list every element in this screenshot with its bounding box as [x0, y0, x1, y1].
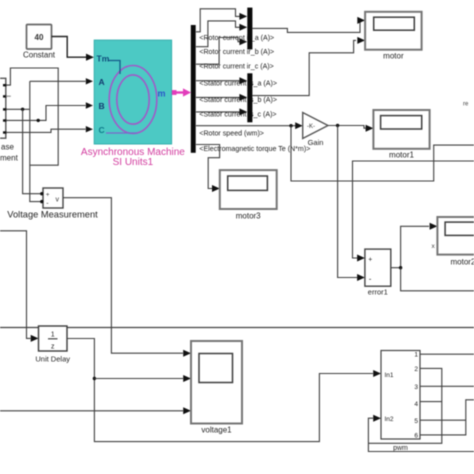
- svg-text:Voltage Measurement: Voltage Measurement: [7, 210, 98, 220]
- svg-text:3: 3: [414, 384, 418, 391]
- junction to voltage1 in2: [93, 377, 96, 380]
- svg-text:motor2: motor2: [451, 258, 474, 267]
- wire ir_c to mux in3: [196, 38, 240, 65]
- svg-text:<Rotor speed (wm)>: <Rotor speed (wm)>: [199, 130, 264, 138]
- error1 sum block: [365, 249, 391, 296]
- svg-text:+: +: [46, 192, 50, 199]
- wire phase b to machine B: [6, 106, 86, 121]
- vertical tap a to VM port2: [30, 81, 42, 201]
- svg-text:<Rotor current ir_a (A)>: <Rotor current ir_a (A)>: [199, 34, 274, 42]
- wire error1 out down off right edge: [401, 268, 474, 291]
- scope voltage1: [191, 341, 242, 435]
- svg-text:A: A: [99, 77, 105, 87]
- svg-text:-: -: [369, 275, 372, 284]
- svg-text:ment: ment: [0, 154, 19, 163]
- svg-text:m: m: [158, 89, 166, 99]
- svg-text:ase: ase: [1, 143, 14, 152]
- svg-text:<Rotor current ir_b (A)>: <Rotor current ir_b (A)>: [199, 48, 274, 56]
- wire constant to Tm: [52, 37, 88, 58]
- wire is_a to mux2: [196, 80, 240, 82]
- svg-text:re: re: [463, 102, 469, 108]
- constant block "40": [23, 25, 56, 60]
- svg-text:In1: In1: [385, 372, 394, 379]
- signal name labels: [199, 34, 310, 153]
- svg-text:5: 5: [414, 418, 418, 425]
- wire gain out to motor1: [328, 126, 366, 129]
- asynchronous machine block: [94, 40, 171, 144]
- wire is_c to mux2: [196, 111, 240, 113]
- m output arrow (magenta): [172, 90, 177, 95]
- wire ir_a to mux in1: [196, 9, 240, 32]
- svg-text:Tm: Tm: [97, 54, 110, 64]
- node tap to VM port1: [21, 108, 24, 111]
- wire rotor speed to gain: [196, 125, 297, 127]
- svg-text:motor3: motor3: [236, 212, 261, 221]
- mux rotor currents: [247, 8, 252, 50]
- wire from left edge to unit delay: [0, 231, 31, 339]
- wire unit delay out down along bottom to pwm In1: [67, 339, 373, 442]
- wire ir_b to mux in2: [196, 21, 240, 47]
- wire gain tap down to error1 minus: [338, 126, 357, 278]
- mux stator currents: [247, 73, 252, 122]
- svg-text:<Electromagnetic torque Te (N*: <Electromagnetic torque Te (N*m)>: [199, 145, 310, 153]
- three-phase measurement block (cut off at left edge): [0, 78, 19, 162]
- wire speed tap down right and off right edge: [291, 126, 474, 181]
- svg-text:voltage1: voltage1: [201, 426, 232, 435]
- svg-text:motor: motor: [383, 52, 404, 61]
- wire VM output to voltage1 in1: [63, 198, 183, 354]
- svg-text:6: 6: [414, 433, 418, 440]
- voltage measurement block: [7, 188, 98, 220]
- gain block: [303, 113, 328, 148]
- svg-text:Constant: Constant: [23, 51, 56, 60]
- pwm out1 wire: [420, 353, 474, 355]
- wire is_b to mux2: [196, 96, 240, 98]
- pwm out2 wire loop: [368, 368, 441, 443]
- svg-text:-K-: -K-: [307, 124, 315, 130]
- svg-text:B: B: [99, 101, 105, 111]
- wire phase c to machine C: [6, 129, 86, 132]
- pwm out6 wire: [420, 400, 474, 435]
- unit delay block: [35, 326, 70, 364]
- wire feedback from right edge to pwm In2: [368, 418, 474, 451]
- svg-text:In2: In2: [385, 416, 394, 423]
- svg-text:+: +: [368, 257, 372, 264]
- svg-text:40: 40: [35, 33, 44, 42]
- scope motor2 (cut off at right edge): [432, 217, 474, 267]
- scope motor3: [220, 170, 277, 220]
- wire phase a to machine A: [6, 81, 86, 109]
- scope motor: [365, 12, 422, 61]
- wire mux1 out to scope motor: [252, 20, 361, 32]
- svg-text:2: 2: [414, 366, 418, 373]
- svg-text:Unit Delay: Unit Delay: [35, 355, 70, 364]
- port stub: [6, 95, 11, 97]
- svg-text:v: v: [56, 197, 60, 204]
- wire mux2 out to scope motor in2: [252, 40, 356, 95]
- wire up-and-over from port 1: [6, 68, 58, 165]
- wire from left edge to voltage1 in3: [0, 410, 183, 412]
- wire speed ref from right edge to error1 plus: [353, 161, 474, 258]
- svg-text:error1: error1: [368, 288, 388, 297]
- scope motor1: [373, 110, 429, 160]
- svg-text:1: 1: [414, 352, 418, 359]
- svg-text:motor1: motor1: [389, 151, 414, 160]
- pwm out5 wire: [420, 419, 466, 421]
- svg-text:SI Units1: SI Units1: [113, 157, 154, 168]
- pwm subsystem block: [381, 351, 420, 453]
- bus selector: [191, 25, 196, 153]
- pwm out3 wire: [420, 385, 474, 387]
- wire error1 out up to motor2: [391, 226, 429, 267]
- svg-text:C: C: [99, 125, 105, 135]
- svg-text:z: z: [51, 344, 55, 351]
- svg-text:Gain: Gain: [308, 138, 324, 147]
- long main line across whole model: [0, 327, 474, 329]
- svg-text:4: 4: [414, 401, 418, 408]
- svg-text:1: 1: [51, 332, 55, 339]
- wire torque to motor3: [196, 145, 220, 189]
